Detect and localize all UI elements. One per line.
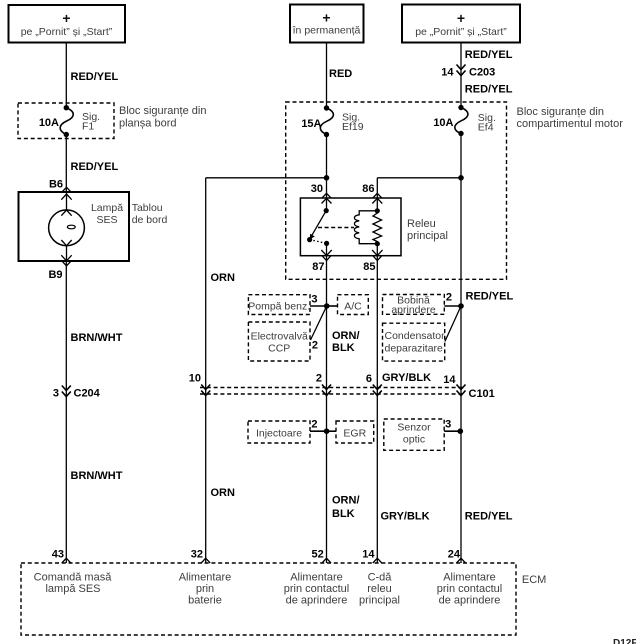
svg-text:10A: 10A	[39, 117, 59, 129]
svg-text:86: 86	[362, 183, 374, 195]
svg-text:optic: optic	[403, 434, 425, 446]
svg-text:+: +	[457, 10, 465, 26]
svg-text:în permanență: în permanență	[292, 25, 361, 37]
svg-text:+: +	[322, 10, 330, 26]
svg-text:de aprindere: de aprindere	[286, 595, 348, 607]
svg-text:ECM: ECM	[522, 574, 546, 586]
svg-text:2: 2	[316, 372, 322, 384]
svg-text:planșa bord: planșa bord	[119, 118, 177, 130]
svg-text:B9: B9	[48, 269, 62, 281]
svg-text:BRN/WHT: BRN/WHT	[71, 332, 123, 344]
svg-text:releu: releu	[367, 583, 391, 595]
svg-text:43: 43	[52, 549, 64, 561]
svg-text:C-dă: C-dă	[368, 572, 393, 584]
svg-text:14: 14	[441, 67, 454, 79]
svg-text:de bord: de bord	[132, 214, 168, 226]
svg-text:GRY/BLK: GRY/BLK	[381, 511, 430, 523]
svg-text:ORN/: ORN/	[332, 495, 360, 507]
svg-text:Comandă masă: Comandă masă	[34, 572, 113, 584]
svg-text:RED/YEL: RED/YEL	[71, 71, 119, 83]
svg-text:CCP: CCP	[268, 343, 290, 355]
svg-text:2: 2	[311, 419, 317, 431]
svg-text:6: 6	[366, 373, 372, 385]
svg-text:pe „Pornit” și „Start”: pe „Pornit” și „Start”	[21, 26, 113, 38]
svg-text:Electrovalvă: Electrovalvă	[251, 331, 308, 343]
svg-text:RED/YEL: RED/YEL	[465, 511, 513, 523]
svg-text:RED/YEL: RED/YEL	[466, 291, 514, 303]
svg-text:RED/YEL: RED/YEL	[465, 84, 513, 96]
svg-text:RED/YEL: RED/YEL	[465, 49, 513, 61]
svg-text:deparazitare: deparazitare	[385, 343, 444, 355]
svg-text:Alimentare: Alimentare	[443, 572, 496, 584]
svg-text:compartimentul motor: compartimentul motor	[517, 118, 624, 130]
svg-text:Senzor: Senzor	[397, 422, 431, 434]
svg-text:prin contactul: prin contactul	[284, 583, 349, 595]
svg-text:pe „Pornit” și „Start”: pe „Pornit” și „Start”	[415, 26, 507, 38]
svg-text:Alimentare: Alimentare	[290, 572, 343, 584]
svg-text:+: +	[62, 10, 70, 26]
svg-text:RED/YEL: RED/YEL	[71, 161, 119, 173]
svg-text:prin: prin	[196, 583, 214, 595]
svg-text:ORN: ORN	[211, 272, 236, 284]
svg-text:ORN: ORN	[211, 487, 236, 499]
svg-text:Bloc siguranțe din: Bloc siguranțe din	[119, 105, 206, 117]
svg-text:3: 3	[445, 419, 451, 431]
svg-text:C204: C204	[74, 388, 101, 400]
svg-text:ORN/: ORN/	[332, 330, 360, 342]
svg-text:Alimentare: Alimentare	[179, 572, 232, 584]
svg-text:D12F: D12F	[613, 638, 636, 644]
svg-text:3: 3	[311, 294, 317, 306]
svg-text:BRN/WHT: BRN/WHT	[71, 470, 123, 482]
svg-text:B6: B6	[49, 179, 63, 191]
svg-text:10A: 10A	[433, 117, 453, 129]
svg-text:30: 30	[311, 183, 323, 195]
svg-text:Bloc siguranțe din: Bloc siguranțe din	[517, 106, 604, 118]
svg-text:C101: C101	[469, 388, 495, 400]
svg-text:RED: RED	[329, 68, 352, 80]
svg-text:2: 2	[312, 340, 318, 352]
svg-text:BLK: BLK	[332, 342, 355, 354]
svg-text:Ef4: Ef4	[478, 122, 494, 134]
svg-text:GRY/BLK: GRY/BLK	[382, 372, 431, 384]
svg-text:SES: SES	[96, 214, 117, 226]
svg-text:Lampă: Lampă	[91, 202, 123, 214]
svg-text:Releu: Releu	[407, 218, 436, 230]
svg-text:Condensator: Condensator	[385, 330, 446, 342]
svg-text:aprindere: aprindere	[391, 304, 436, 316]
svg-text:24: 24	[448, 549, 461, 561]
svg-text:14: 14	[362, 549, 375, 561]
svg-text:C203: C203	[469, 67, 495, 79]
svg-text:lampă SES: lampă SES	[45, 583, 100, 595]
svg-text:2: 2	[446, 292, 452, 304]
svg-text:14: 14	[443, 374, 456, 386]
svg-text:principal: principal	[359, 595, 400, 607]
svg-text:BLK: BLK	[332, 508, 355, 520]
svg-text:prin contactul: prin contactul	[437, 583, 502, 595]
svg-text:52: 52	[312, 549, 324, 561]
svg-text:87: 87	[312, 261, 324, 273]
svg-text:EGR: EGR	[343, 428, 366, 440]
svg-text:85: 85	[363, 261, 375, 273]
svg-text:Pompă benz.: Pompă benz.	[248, 301, 310, 313]
svg-text:A/C: A/C	[344, 301, 362, 313]
svg-text:32: 32	[191, 549, 203, 561]
svg-text:10: 10	[189, 372, 201, 384]
svg-text:Tablou: Tablou	[132, 202, 163, 214]
svg-text:Ef19: Ef19	[342, 121, 364, 133]
svg-text:15A: 15A	[301, 118, 321, 130]
svg-text:3: 3	[53, 388, 59, 400]
svg-text:F1: F1	[82, 121, 94, 133]
svg-text:principal: principal	[407, 230, 448, 242]
svg-text:de aprindere: de aprindere	[439, 595, 501, 607]
svg-text:Injectoare: Injectoare	[256, 428, 302, 440]
svg-text:baterie: baterie	[188, 595, 222, 607]
